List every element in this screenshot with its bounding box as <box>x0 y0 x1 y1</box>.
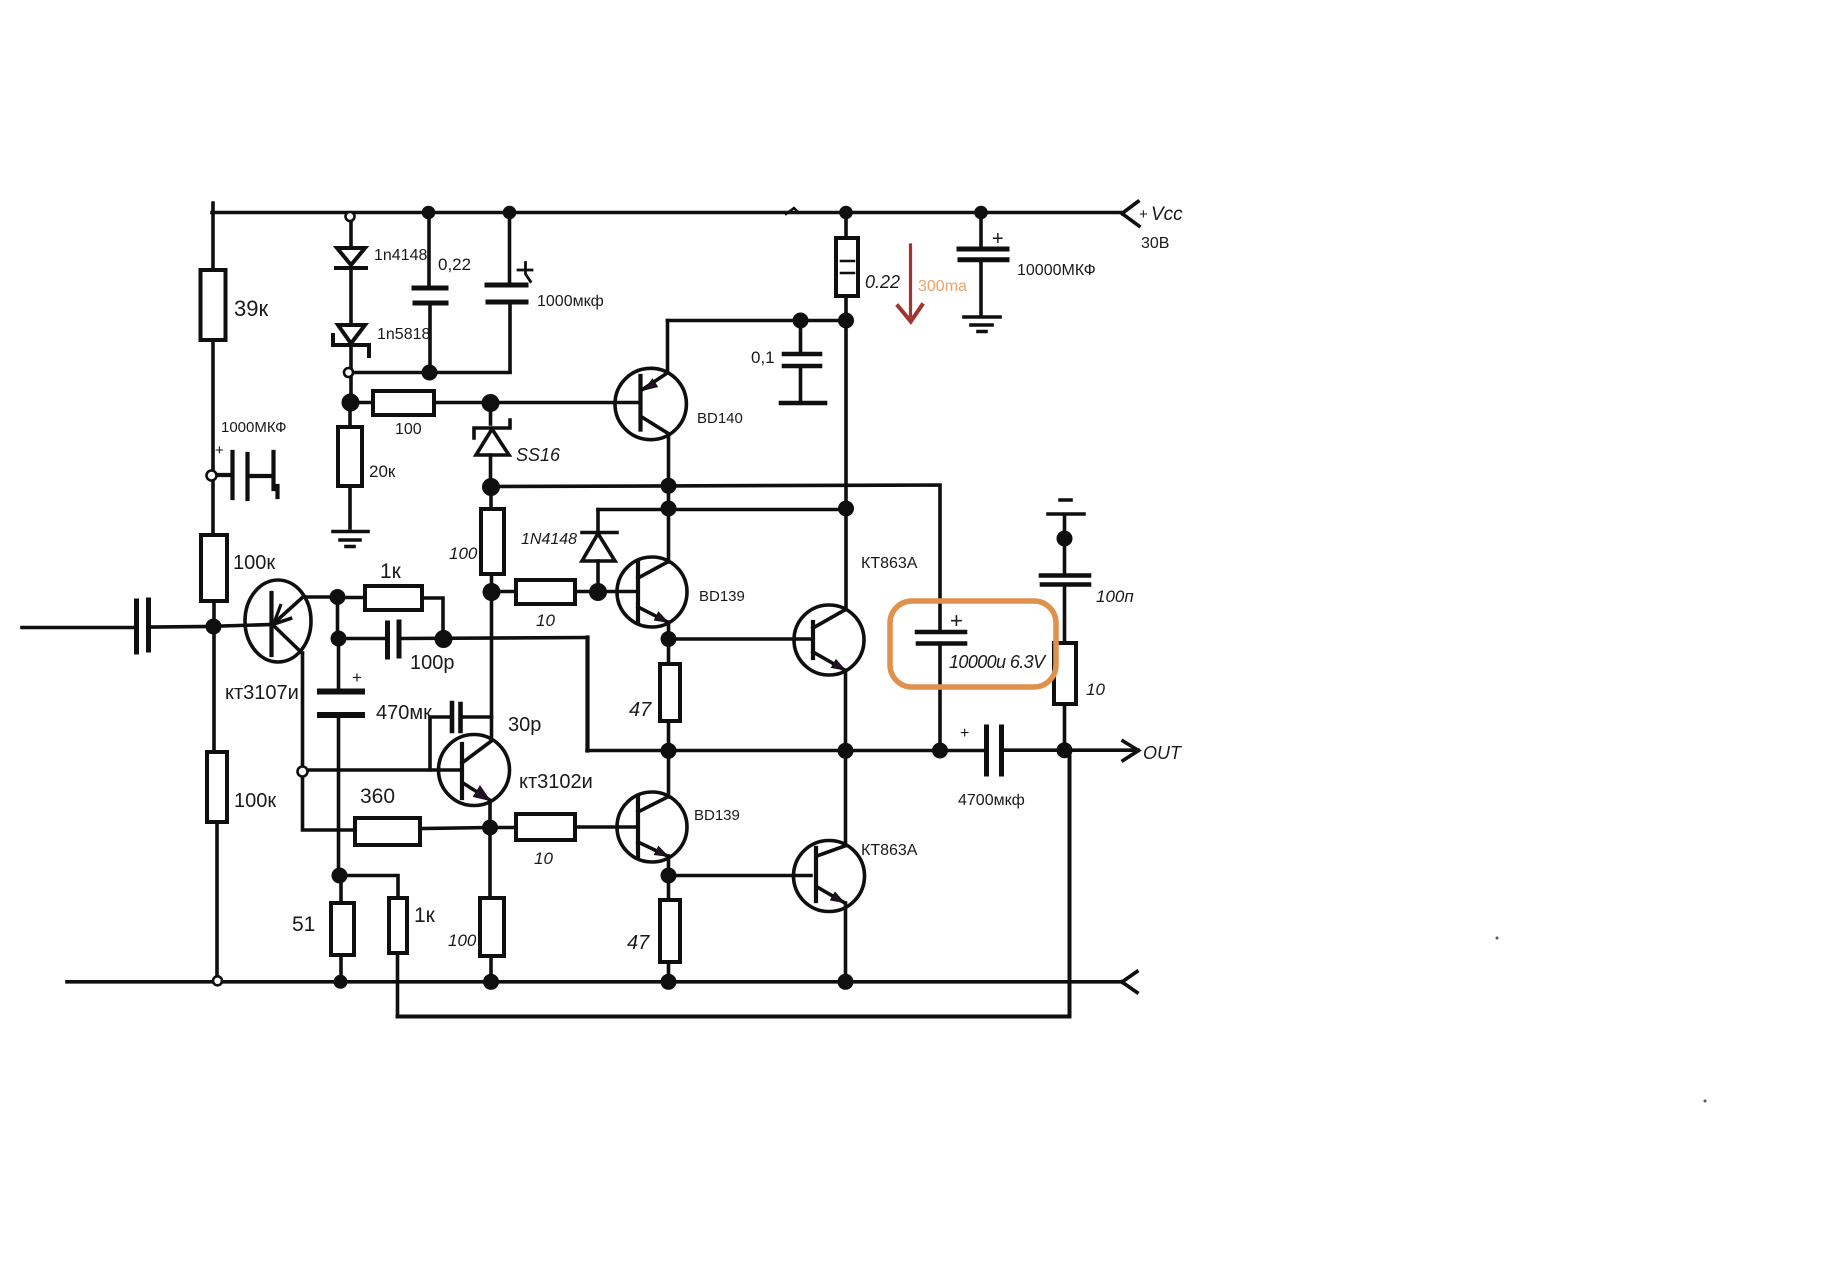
svg-text:+: + <box>1139 206 1148 223</box>
svg-text:BD139: BD139 <box>694 807 740 824</box>
svg-text:100к: 100к <box>234 790 276 812</box>
svg-text:47: 47 <box>629 699 652 721</box>
svg-text:1000МКФ: 1000МКФ <box>221 419 287 436</box>
svg-text:10: 10 <box>1086 680 1105 699</box>
svg-text:1к: 1к <box>380 560 402 583</box>
svg-text:51: 51 <box>292 913 315 936</box>
svg-text:100к: 100к <box>233 552 275 574</box>
svg-text:+: + <box>950 608 963 633</box>
svg-text:1000мкф: 1000мкф <box>537 293 604 310</box>
svg-text:0,22: 0,22 <box>438 255 471 274</box>
svg-text:+: + <box>352 668 362 687</box>
svg-text:1к: 1к <box>414 904 436 927</box>
svg-text:20к: 20к <box>369 462 396 481</box>
svg-text:BD139: BD139 <box>699 588 745 605</box>
svg-text:10: 10 <box>534 849 553 868</box>
svg-text:1n5818: 1n5818 <box>377 326 430 343</box>
svg-text:0,1: 0,1 <box>751 348 775 367</box>
svg-text:SS16: SS16 <box>516 445 561 465</box>
svg-text:4700мкф: 4700мкф <box>958 792 1025 809</box>
svg-text:1N4148: 1N4148 <box>521 531 577 548</box>
svg-text:+: + <box>960 725 969 742</box>
svg-text:+: + <box>992 228 1004 250</box>
svg-text:BD140: BD140 <box>697 410 743 427</box>
svg-text:кт3102и: кт3102и <box>519 771 593 793</box>
svg-text:47: 47 <box>627 932 650 954</box>
svg-text:10000u 6.3V: 10000u 6.3V <box>949 652 1047 672</box>
svg-text:1n4148: 1n4148 <box>374 247 427 264</box>
svg-text:39к: 39к <box>234 296 268 321</box>
svg-text:360: 360 <box>360 785 395 808</box>
svg-text:OUT: OUT <box>1143 743 1183 763</box>
svg-text:30р: 30р <box>508 714 541 736</box>
svg-text:КТ863А: КТ863А <box>861 842 918 859</box>
svg-text:10000МКФ: 10000МКФ <box>1017 262 1096 279</box>
svg-text:100: 100 <box>449 544 478 563</box>
svg-text:30В: 30В <box>1141 235 1169 252</box>
svg-text:300ma: 300ma <box>918 278 967 295</box>
svg-text:10: 10 <box>536 611 555 630</box>
svg-text:КТ863А: КТ863А <box>861 555 918 572</box>
svg-text:кт3107и: кт3107и <box>225 682 299 704</box>
svg-text:+: + <box>215 442 224 459</box>
svg-text:100п: 100п <box>1096 587 1134 606</box>
svg-text:100р: 100р <box>410 652 455 674</box>
svg-text:470мк: 470мк <box>376 702 432 724</box>
svg-text:100: 100 <box>395 421 422 438</box>
svg-text:Vcc: Vcc <box>1151 204 1183 225</box>
svg-text:0.22: 0.22 <box>865 272 900 292</box>
svg-text:100: 100 <box>448 931 477 950</box>
